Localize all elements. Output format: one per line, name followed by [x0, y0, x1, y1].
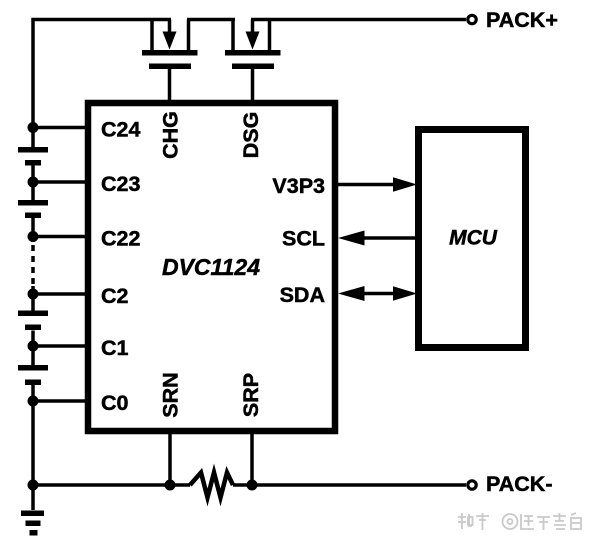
node C23	[28, 177, 39, 188]
terminal PACK-	[468, 472, 553, 496]
wire pin stub C23	[33, 180, 85, 184]
svg-text:SDA: SDA	[280, 283, 325, 307]
wire battery stack segment C22	[31, 218, 35, 242]
wire pin stub C0	[33, 399, 85, 403]
node C22	[28, 231, 39, 242]
wire resistor to PACK-	[233, 483, 466, 487]
wire battery stack segment C23	[31, 166, 35, 201]
svg-text:C24: C24	[101, 117, 140, 141]
wire SRP stem	[250, 434, 254, 485]
wire SCL arrow from MCU	[338, 231, 415, 246]
wire Q2 to PACK+	[251, 18, 466, 22]
wire between Q1 and Q2	[187, 18, 235, 22]
ground	[21, 511, 44, 536]
wire pin stub C2	[33, 292, 85, 296]
wire battery stack segment C2	[31, 286, 35, 311]
watermark zhihu	[458, 513, 581, 530]
svg-text:PACK-: PACK-	[486, 472, 552, 496]
wire battery stack segment C0 to ground	[31, 385, 35, 510]
svg-text:CHG: CHG	[158, 111, 182, 159]
svg-text:C23: C23	[101, 172, 140, 196]
battery cell B3	[18, 311, 48, 331]
battery cell B1	[18, 147, 48, 166]
node C0	[28, 396, 39, 407]
svg-text:SRN: SRN	[158, 372, 182, 417]
transistor Q2 DSG MOSFET	[225, 20, 281, 101]
wire battery stack segment C1	[31, 331, 35, 366]
node SRP	[247, 480, 258, 491]
wire SDA double arrow	[338, 286, 417, 301]
node C1	[28, 341, 39, 352]
terminal PACK+	[468, 8, 558, 32]
svg-text:C2: C2	[101, 284, 129, 308]
svg-text:SRP: SRP	[239, 373, 263, 417]
node C24	[28, 122, 39, 133]
svg-text:C1: C1	[101, 336, 129, 360]
svg-text:C0: C0	[101, 391, 129, 415]
wire top-left from battery stack to Q1	[33, 20, 171, 148]
svg-text:MCU: MCU	[449, 227, 498, 250]
node bottom-left	[28, 480, 39, 491]
svg-text:C22: C22	[101, 226, 140, 250]
battery cell B2	[18, 200, 48, 218]
node C2	[28, 289, 39, 300]
svg-text:PACK+: PACK+	[486, 8, 558, 32]
MCU box	[419, 130, 526, 348]
wire pin stub C24	[33, 126, 85, 130]
resistor RSENSE	[190, 473, 233, 498]
wire pin stub C22	[33, 235, 85, 239]
wire dashed continuation	[31, 245, 35, 287]
svg-text:V3P3: V3P3	[272, 174, 325, 198]
battery cell B4	[18, 365, 48, 385]
wire bottom left to resistor	[33, 483, 190, 487]
transistor Q1 CHG MOSFET	[142, 20, 198, 101]
wire V3P3 arrow to MCU	[338, 177, 417, 191]
svg-text:DVC1124: DVC1124	[162, 254, 260, 280]
svg-text:DSG: DSG	[239, 112, 263, 159]
svg-text:SCL: SCL	[282, 226, 325, 250]
wire pin stub C1	[33, 344, 85, 348]
wire SRN stem	[168, 434, 172, 485]
IC U1 DVC1124 outline	[88, 103, 335, 431]
node SRN	[165, 480, 176, 491]
